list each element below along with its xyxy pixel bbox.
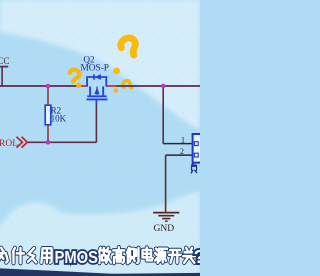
background bottom-right wash <box>50 191 200 276</box>
connector pin square 1 <box>194 142 198 146</box>
junction dot at control net <box>46 140 51 145</box>
glyph 么 <box>28 248 36 262</box>
wire gate riser <box>95 100 97 142</box>
junction dot at R2 top <box>46 84 51 89</box>
junction dot at load riser <box>161 84 166 89</box>
Q2 drain stub <box>102 86 104 95</box>
transistor Q2 PMOS <box>87 74 108 104</box>
glyph 关 <box>183 248 195 263</box>
Q2 body diode triangle <box>95 74 101 80</box>
label 负 (load) <box>191 163 196 173</box>
svg-text:VCC: VCC <box>0 56 10 66</box>
glyph 开 <box>169 250 181 263</box>
ground symbol GND <box>153 213 179 222</box>
glyph 做 <box>99 248 111 263</box>
glyph 用 <box>41 248 51 262</box>
svg-text:2: 2 <box>180 147 184 156</box>
wire R2 top stub <box>47 86 49 106</box>
power flag VCC bar <box>0 66 8 68</box>
pin load 2 lead <box>166 154 193 156</box>
wire R2 bottom stub <box>47 125 49 143</box>
connector pin square 2 <box>194 153 198 157</box>
svg-text:PMOS: PMOS <box>55 247 99 267</box>
Q2 body arrow head <box>94 87 99 94</box>
Q2 body arrow stem <box>96 87 98 95</box>
grid dot texture <box>0 0 200 244</box>
wire ground riser <box>165 155 167 212</box>
wire control net horizontal <box>27 141 96 143</box>
connector J load box <box>193 134 209 163</box>
pin Q2 source lead (red) <box>76 85 88 87</box>
Q2 gate bar <box>87 98 108 100</box>
Q2 body diode bar <box>93 74 95 79</box>
glyph 侧 <box>127 248 138 263</box>
Q2 source stub <box>89 86 91 95</box>
glyph 为 <box>0 248 8 263</box>
glyph 电 <box>143 247 153 260</box>
glyph 什 <box>13 248 24 263</box>
svg-text:GND: GND <box>154 224 175 234</box>
port chevron <box>17 137 28 148</box>
subtitle text 为什么用PMOS做高侧电源开关? <box>0 247 195 263</box>
Q2 channel bar <box>87 95 107 97</box>
wire top rail left segment <box>0 85 77 87</box>
svg-text:ROL: ROL <box>0 139 18 149</box>
resistor R2 body <box>45 105 51 125</box>
svg-text:1: 1 <box>181 136 185 145</box>
background base <box>0 0 200 276</box>
background top highlight <box>0 0 200 130</box>
Q2 gate stub <box>95 100 97 104</box>
wire VCC riser <box>1 67 3 86</box>
pin load 1 lead <box>163 143 192 145</box>
svg-text:?: ? <box>194 246 200 267</box>
question mark small (behind wires) <box>114 79 134 93</box>
question mark medium (over rail) <box>68 69 81 88</box>
background bottom-left hill <box>0 202 88 276</box>
Q2 body-diode arch <box>87 77 106 87</box>
glyph 源 <box>155 249 167 263</box>
svg-text:MOS-P: MOS-P <box>81 62 110 72</box>
wire load riser <box>162 86 164 144</box>
bottom navy band <box>0 268 200 276</box>
wire top rail right segment <box>117 85 201 87</box>
pin Q2 drain lead (red) <box>106 85 117 87</box>
question mark big <box>113 36 140 75</box>
svg-text:10K: 10K <box>51 114 67 124</box>
glyph 高 <box>113 247 124 263</box>
